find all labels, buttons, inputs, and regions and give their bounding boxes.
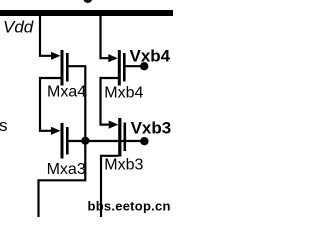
Mxb4 gate arrowhead (108, 54, 118, 62)
node Vxb3 dot (140, 137, 148, 145)
svg-text:Mxa3: Mxa3 (47, 161, 86, 178)
wire junction node line to Vxb3 (68, 140, 144, 142)
svg-text:bbs.eetop.cn: bbs.eetop.cn (88, 199, 171, 214)
svg-text:Mxb3: Mxb3 (104, 157, 143, 174)
transistor Mxa3 (61, 123, 69, 159)
svg-text:Mxb4: Mxb4 (104, 85, 143, 102)
wire Mxa4 bulk to Mxa3 gate (40, 78, 61, 131)
Mxa3 gate arrowhead (51, 127, 61, 135)
Mxa4 gate arrowhead (51, 52, 61, 60)
transistor Mxb3 (118, 118, 126, 157)
Vdd power rail (0, 10, 173, 16)
svg-text:Mxa4: Mxa4 (47, 84, 86, 101)
wire Mxb4 bulk to Mxb3 gate (101, 78, 119, 125)
svg-text:Vxb4: Vxb4 (130, 46, 171, 65)
wire Mxa4 source to junction node (68, 66, 85, 138)
svg-text:Vxb3: Vxb3 (131, 118, 172, 137)
svg-text:s: s (0, 116, 8, 135)
node Vxb4 dot (140, 62, 148, 70)
wire Vdd rail to Mxa4 gate (40, 15, 53, 56)
svg-text:Vdd: Vdd (3, 18, 34, 37)
transistor Mxb4 (118, 50, 126, 86)
Mxb3 gate arrowhead (109, 121, 119, 129)
node dot (partial, top edge) (83, 0, 92, 3)
transistor Mxa4 (61, 50, 69, 86)
wire Vdd rail to Mxb4 gate (101, 15, 111, 58)
wire Mxb4 source stub to Vxb4 node (125, 65, 144, 67)
wire Mxb3 source to bottom edge (101, 156, 118, 217)
node A junction dot (81, 137, 89, 145)
wire junction down and left to bottom edge (39, 141, 86, 217)
